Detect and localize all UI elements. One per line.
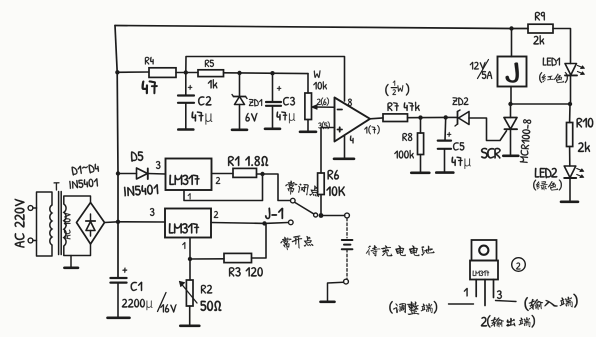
figure number 2: [516, 263, 520, 270]
label normally-closed point: [284, 180, 320, 199]
label half watt paren-open: [385, 84, 388, 96]
bridge inner diode triangle: [86, 222, 95, 231]
wire to R3: [190, 258, 224, 260]
junction ZD2/C5: [444, 115, 448, 119]
capacitor C5 plate+: [438, 140, 451, 142]
wire ZD1 top lead: [239, 73, 241, 96]
label AC 10V: [64, 212, 71, 239]
wire left bus lower: [116, 72, 119, 277]
label D5: [131, 151, 143, 161]
resistor R9: [528, 24, 553, 33]
LED1 ray 1: [578, 66, 584, 69]
wire rail to relay coil: [511, 29, 513, 57]
label input terminal: [524, 294, 578, 312]
part number MCR100-8: [520, 119, 532, 163]
capacitor C2 plate+: [178, 94, 194, 96]
label ZD2: [452, 97, 468, 105]
ground R2: [180, 324, 199, 327]
wire AC L stub: [33, 207, 37, 209]
pin 1 label U2: [188, 193, 191, 199]
LED2 cathode bar: [564, 177, 576, 179]
wire to NO contact: [265, 222, 289, 225]
label LED1: [543, 58, 560, 67]
wire C2 top lead: [185, 73, 187, 96]
ground ZD1: [232, 129, 247, 132]
junction battery+ node: [319, 213, 324, 218]
C1 value slash: [158, 293, 167, 312]
wire to R4: [117, 71, 149, 73]
label R7 47k: [387, 102, 419, 111]
label normally-open point: [280, 234, 313, 251]
value 47: [142, 81, 158, 94]
junction ZD1: [237, 71, 241, 75]
wire bridge out to bus: [105, 221, 119, 224]
wire C3 top lead: [272, 73, 274, 102]
junction bus/U3: [116, 220, 120, 224]
label AC 220V: [15, 199, 25, 248]
junction top rail / relay: [509, 26, 513, 30]
label battery-to-charge: [366, 245, 434, 256]
wire U3 out: [211, 222, 265, 225]
wire node to ZD2: [446, 116, 458, 118]
label R5: [205, 60, 214, 67]
transformer T secondary winding: [64, 204, 66, 246]
wire rail to R9: [512, 28, 529, 30]
pin label 3(5): [318, 121, 329, 129]
label ZD1: [249, 99, 262, 107]
label C5: [453, 142, 464, 150]
ground C2: [178, 128, 193, 131]
wire secondary top to bridge: [64, 196, 91, 204]
C5 polarity: [447, 132, 451, 137]
label C3: [283, 97, 295, 106]
wire R5 to pot W: [224, 72, 309, 75]
ground C5: [436, 171, 453, 174]
ground op-amp pin4: [334, 158, 354, 161]
value R9 2k: [533, 35, 544, 44]
rating slash: [478, 60, 489, 79]
op-amp noninverting plus h: [338, 129, 343, 131]
label C2: [198, 96, 211, 105]
SCR thyristor triangle: [504, 118, 517, 130]
value 50ohm: [201, 301, 222, 311]
contact NC point: [291, 198, 296, 203]
wire R4 to R5: [176, 72, 198, 74]
part IN5401 upper: [124, 184, 158, 196]
junction U3 out/R3: [262, 221, 266, 225]
regulator LM317 U2 box: [166, 159, 212, 191]
junction C3: [270, 71, 274, 75]
wire pin3 input to R6: [321, 128, 335, 174]
wire C1 bottom lead: [117, 283, 119, 317]
label adjust terminal: [389, 301, 437, 315]
capacitor C2 plate-: [178, 102, 194, 104]
pin label 2(6): [317, 97, 329, 105]
resistor R5: [198, 70, 224, 77]
capacitor C3 plate+: [266, 101, 281, 103]
label SCR: [481, 148, 501, 159]
value C5 47u: [452, 157, 471, 169]
wire C5 bottom lead: [444, 149, 446, 171]
wire primary top: [37, 192, 53, 208]
terminal AC L: [28, 206, 33, 211]
SCR cathode bar: [505, 128, 518, 130]
wire R9 to LED1: [553, 29, 571, 64]
wire SCR anode: [510, 104, 512, 118]
battery plate 3: [342, 248, 353, 250]
wire left bus upper: [115, 26, 117, 73]
wire LED1 to node: [570, 75, 572, 104]
ground pot W: [300, 131, 316, 134]
TO220 hole: [479, 246, 488, 255]
label R6: [328, 170, 339, 180]
C3 polarity: [277, 86, 281, 91]
label C1: [131, 282, 143, 291]
wire D5 to LM317#1 pin3: [148, 173, 166, 176]
ground C1: [108, 316, 130, 319]
resistor R10: [567, 123, 573, 147]
value 100k: [394, 150, 414, 159]
C2 polarity: [188, 85, 192, 90]
label J-1: [265, 208, 283, 219]
wire relay coil to SCR node: [510, 87, 512, 105]
wire R1 to node: [257, 173, 263, 175]
resistor R6: [318, 173, 325, 195]
label R8: [402, 133, 412, 141]
resistor R4: [149, 68, 176, 78]
TO220 label LM317: [473, 271, 489, 276]
terminal battery-: [344, 279, 349, 284]
junction SCR/relay/LED: [508, 102, 512, 106]
pin 8: [348, 99, 352, 106]
part IN5401 bridge: [69, 178, 98, 189]
label R2: [201, 285, 212, 294]
wire to input ground: [70, 256, 72, 267]
capacitor C1 plate-: [111, 281, 127, 283]
wire to pin1 label: [449, 303, 474, 305]
wire battery+ clip: [346, 218, 348, 238]
wire AC N stub: [33, 240, 37, 242]
label red color: [539, 72, 568, 83]
wire node to R10: [569, 104, 571, 123]
junction LED1/R10: [568, 102, 572, 106]
regulator LM317 U3 box: [165, 209, 211, 238]
rating 5A: [482, 71, 492, 79]
pin 3 label U3: [150, 208, 155, 216]
capacitor C5 plate-: [438, 148, 451, 150]
bridge inner diode lead2: [90, 214, 92, 221]
wire ZD1 bottom lead: [239, 105, 241, 129]
wire battery- to ground: [328, 282, 344, 300]
value C3 47u: [276, 112, 295, 124]
TO220 pin 1: [464, 288, 468, 297]
value C2 47u: [192, 112, 213, 125]
relay J-1 switch arm: [295, 203, 313, 214]
TO220 body: [470, 261, 498, 280]
label W: [314, 70, 321, 78]
zener ZD2 triangle: [459, 112, 470, 125]
label output terminal: [481, 315, 535, 328]
resistor R1: [233, 168, 257, 177]
bridge inner diode lead: [90, 231, 92, 237]
resistor R7: [383, 114, 408, 122]
wire pot W bottom lead: [307, 120, 309, 131]
wire op-amp pin 4 to ground: [344, 136, 346, 158]
capacitor C3 plate-: [266, 105, 281, 107]
TO220 pin 3: [497, 290, 502, 299]
LED1 triangle: [565, 64, 577, 76]
label green color: [533, 180, 562, 191]
R2 arrow shaft: [182, 284, 198, 303]
wire op-amp out to R7: [370, 117, 383, 120]
label LED2: [535, 168, 557, 178]
label R1 1.8ohm: [228, 156, 268, 166]
diode D5 triangle: [137, 168, 148, 179]
battery plate 1: [342, 239, 353, 241]
bridge inner diode bar: [86, 220, 95, 222]
wire R7 to node: [408, 116, 446, 118]
wire to pin3 label: [496, 301, 517, 302]
zener ZD1 cathode bar: [234, 96, 246, 98]
potentiometer W body: [305, 93, 312, 120]
wire R6 to battery node: [320, 195, 322, 216]
wire bus to D5: [118, 173, 137, 175]
TO220 leg 3: [493, 280, 495, 298]
transformer core line 2: [60, 192, 62, 255]
LED1 ray 2: [578, 72, 584, 75]
TO220 leg 1: [475, 280, 477, 297]
pin 2 label U2: [216, 177, 220, 184]
pin 1 label U3: [182, 242, 185, 249]
ground battery: [321, 300, 335, 303]
wire R2 to ground: [189, 306, 191, 325]
TO220 leg 2: [484, 280, 486, 306]
contact NO point: [289, 220, 294, 225]
label R3 120: [229, 267, 263, 276]
value R10 2k: [578, 142, 590, 152]
label LM317 U3: [169, 223, 199, 233]
wire node to op-amp pin 8: [186, 57, 345, 102]
pin 3 label U2: [156, 161, 161, 169]
label R4: [145, 57, 154, 65]
wire secondary bottom to bridge: [64, 244, 91, 256]
pin 4: [350, 136, 354, 144]
wire node to NC contact: [263, 174, 291, 201]
wire to battery+ terminal: [321, 215, 345, 217]
resistor R3: [224, 253, 252, 262]
C1 polarity: [122, 268, 127, 273]
rheostat R2 body: [186, 280, 193, 306]
wire pot wiper to op-amp pin2: [314, 106, 335, 108]
wire ZD2 to SCR gate: [469, 118, 507, 141]
value C1 16V: [160, 304, 176, 312]
value 10k: [313, 81, 327, 89]
wire U3 adj lead: [189, 238, 191, 260]
junction bus/D5: [116, 171, 120, 175]
LED2 ray 2: [577, 175, 583, 178]
transformer T primary winding: [50, 205, 52, 245]
wire U2 out to R1: [212, 173, 234, 175]
wire C3 bottom lead: [272, 106, 274, 128]
wire C5 top lead: [444, 117, 447, 140]
pin 2 label U3: [214, 211, 218, 218]
wire SCR node to LED node: [511, 103, 571, 105]
zener ZD2 cathode bar: [457, 112, 459, 125]
wire C2 bottom lead: [185, 103, 187, 128]
bridge rectifier D1-D4: [77, 203, 105, 245]
op-amp inverting input minus: [338, 109, 343, 111]
wire pot W top lead: [307, 74, 309, 93]
R2 arrowhead: [179, 281, 184, 286]
label R10: [577, 118, 594, 128]
diode D5 cathode bar: [147, 169, 149, 180]
LED2 ray 1: [577, 169, 583, 172]
wire U2 adj loop: [184, 174, 263, 201]
wire R8 to ground: [420, 155, 422, 172]
ground R8: [411, 172, 429, 175]
junction bus/rail: [115, 70, 119, 74]
TO220 tab: [472, 240, 497, 261]
label R9: [535, 12, 545, 21]
label LM317 U2: [169, 175, 199, 185]
ground C3: [265, 128, 280, 131]
ground input: [64, 266, 78, 269]
resistor R8: [418, 133, 424, 155]
transformer core line 1: [58, 192, 60, 255]
wire bus to U3 pin3: [118, 221, 165, 223]
capacitor C1 plate+: [111, 277, 127, 279]
wire node to R2: [189, 259, 191, 280]
op-amp U1 triangle: [335, 98, 371, 142]
wire LED2 to ground: [569, 178, 571, 201]
wire R3 to U3 out: [252, 223, 267, 258]
label T: [54, 182, 60, 190]
battery plate 2: [344, 244, 350, 246]
junction adj/R3/R2: [188, 257, 192, 261]
terminal AC N: [28, 238, 33, 243]
fraction bar: [391, 87, 397, 89]
junction R1/adj: [260, 172, 264, 176]
wire primary bottom: [37, 208, 53, 256]
LED2 triangle: [564, 166, 576, 178]
wire top positive rail: [115, 26, 512, 29]
relay J coil box: [498, 57, 527, 87]
junction node C2/top: [184, 70, 188, 74]
wire R10 to LED2: [569, 147, 571, 167]
ground LED2: [561, 201, 578, 204]
wire to R8: [420, 118, 422, 133]
terminal battery+: [345, 213, 350, 218]
junction R8: [418, 115, 422, 119]
value C1 2200u: [122, 299, 153, 310]
wire SCR cathode to ground: [510, 129, 512, 154]
op-amp noninverting plus v: [339, 127, 341, 131]
contact arm pivot: [314, 213, 318, 217]
value 6V: [245, 113, 257, 122]
pin label 1(7): [364, 125, 379, 134]
zener ZD1 triangle: [235, 97, 245, 105]
value 1k: [208, 79, 218, 88]
value 10K: [326, 186, 345, 196]
rating 12V: [470, 62, 486, 70]
label D1-D4: [71, 163, 99, 175]
label J: [506, 62, 519, 82]
pot wiper arrowhead: [312, 105, 317, 109]
figure number 2 circled: [512, 258, 526, 272]
LED1 cathode bar: [565, 74, 577, 76]
ground SCR: [503, 155, 518, 158]
wire battery- clip: [346, 249, 348, 278]
